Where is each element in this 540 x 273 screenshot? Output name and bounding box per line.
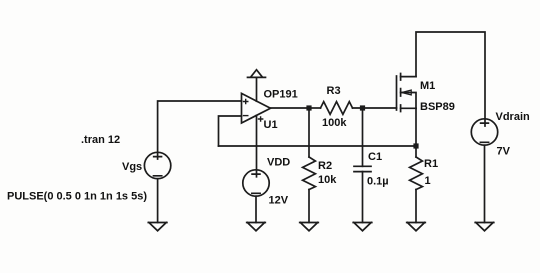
- ground below VDD: [247, 223, 266, 231]
- svg-text:12V: 12V: [269, 195, 289, 207]
- op-amp bottom supply pin to VDD: [256, 115, 258, 176]
- wire node to R3 left: [309, 107, 321, 109]
- power flag above op-amp: [248, 70, 266, 78]
- svg-text:R2: R2: [318, 160, 332, 172]
- svg-text:7V: 7V: [497, 146, 511, 158]
- svg-text:C1: C1: [368, 151, 382, 163]
- wire inverting input to feedback rail: [219, 116, 242, 146]
- wire Vdrain to ground: [484, 145, 486, 222]
- transistor M1 body stub with arrow: [401, 93, 416, 109]
- resistor R2: [303, 157, 316, 190]
- transistor M1 drain stub: [401, 76, 416, 78]
- svg-text:VDD: VDD: [267, 157, 290, 169]
- wire Vgs to ground: [157, 179, 159, 223]
- transistor M1 source stub: [401, 107, 416, 109]
- svg-text:.tran 12: .tran 12: [81, 134, 120, 146]
- op-amp U1: [242, 93, 271, 123]
- op-amp plus input marker: [244, 99, 248, 103]
- ground below Vdrain: [475, 223, 494, 231]
- wire VDD to ground: [255, 196, 257, 222]
- svg-text:BSP89: BSP89: [420, 101, 455, 113]
- svg-text:OP191: OP191: [264, 89, 298, 101]
- svg-text:R3: R3: [327, 85, 341, 97]
- svg-text:U1: U1: [264, 119, 278, 131]
- svg-text:PULSE(0 0.5 0 1n 1n 1s 5s): PULSE(0 0.5 0 1n 1n 1s 5s): [7, 191, 147, 203]
- transistor M1 gate bar: [396, 76, 398, 110]
- ground below R1: [407, 223, 426, 231]
- voltage source Vdrain: [471, 119, 497, 145]
- junction dot output node: [306, 105, 311, 110]
- capacitor C1: [354, 166, 371, 171]
- wire R1 to ground: [415, 190, 417, 223]
- svg-text:0.1µ: 0.1µ: [367, 176, 389, 188]
- transistor M1 channel segments: [400, 74, 402, 112]
- junction dot source node: [413, 143, 418, 148]
- ground below Vgs: [148, 223, 167, 231]
- voltage source VDD: [243, 170, 269, 196]
- op-amp bottom supply plus marker: [259, 117, 263, 121]
- svg-text:R1: R1: [424, 158, 438, 170]
- svg-text:10k: 10k: [318, 174, 337, 186]
- voltage source Vgs: [144, 152, 170, 178]
- wire C1 to ground: [362, 172, 364, 223]
- svg-text:Vdrain: Vdrain: [496, 111, 531, 123]
- wire M1 source down to junction: [415, 108, 417, 146]
- wire op-amp output to node: [271, 107, 310, 109]
- ground below R2: [300, 223, 319, 231]
- wire R2 to ground: [308, 190, 310, 223]
- op-amp minus input marker: [244, 115, 248, 117]
- wire gate node down to C1: [362, 108, 364, 166]
- ground below C1: [353, 223, 372, 231]
- junction dot gate node: [360, 105, 365, 110]
- svg-text:100k: 100k: [322, 117, 347, 129]
- svg-text:M1: M1: [420, 80, 435, 92]
- wire output node down to R2: [308, 108, 310, 157]
- wire feedback rail: [219, 145, 417, 147]
- resistor R3: [321, 102, 353, 115]
- resistor R1: [415, 146, 417, 157]
- wire M1 drain up and over to Vdrain: [416, 32, 485, 126]
- wire R3 right to gate node and MOSFET gate: [353, 107, 397, 109]
- wire Vgs top to op-amp noninverting input: [158, 101, 242, 159]
- svg-text:Vgs: Vgs: [122, 161, 142, 173]
- op-amp top supply pin: [256, 77, 258, 101]
- svg-text:1: 1: [425, 175, 431, 187]
